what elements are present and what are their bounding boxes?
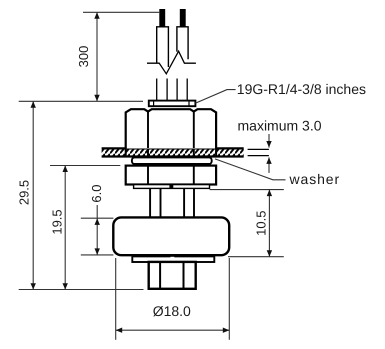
extension line float top left [81,217,114,219]
svg-text:maximum 3.0: maximum 3.0 [238,118,322,134]
washer [132,157,212,164]
extension line diameter right [228,258,230,340]
svg-text:Ø18.0: Ø18.0 [153,303,191,319]
svg-text:10.5: 10.5 [254,211,269,236]
lead wire 4 [186,79,188,101]
extension line plate top right [228,256,284,258]
stem tube right [184,188,194,217]
hex nut thread bushing through panel [126,149,216,157]
extension line step level right [210,189,284,191]
label maximum 3.0 [238,118,322,134]
extension line bottom (end nut bottom level) [19,289,144,291]
extension line at lower hex top level [50,165,120,167]
dimension maximum 3.0 arrows [266,134,271,173]
dimension 10.5 [254,190,272,257]
lead wire 2 [166,79,168,101]
end nut bottom [149,262,196,289]
label washer [289,171,341,187]
dimension 300 [76,12,100,101]
extension line at collar top level [19,100,143,102]
svg-text:19G-R1/4-3/8 inches: 19G-R1/4-3/8 inches [237,81,366,97]
top collar plate [149,101,196,107]
svg-text:29.5: 29.5 [16,180,31,205]
extension line diameter left [115,258,117,340]
svg-text:19.5: 19.5 [50,209,65,234]
svg-text:300: 300 [76,46,91,68]
dimension diameter 18.0 [116,303,230,333]
hex nut lower (below washer) [126,166,216,185]
hex nut upper (above panel) [126,109,216,148]
step flange below nut [134,184,210,188]
cable core left (black insulation) [159,9,165,27]
float body [113,217,229,255]
leader 19G thread label [195,90,235,104]
cable sheath left [157,27,169,67]
extension line float bottom left [81,254,114,256]
dimension 6.0 [89,185,104,255]
leader washer [215,159,286,180]
panel continuation lines right [248,149,269,155]
bottom retaining plate [132,256,214,262]
mounting panel (hatched cross-section) [102,148,244,156]
label 19G-R1/4-3/8 inches [237,81,366,97]
lead wire 3 [176,79,178,101]
cable core right (black insulation) [180,9,186,27]
stem tube left [150,188,160,217]
cable sheath right [177,27,188,59]
dimension 19.5 [50,166,68,290]
lead wire 1 [156,79,158,101]
extension line top (wire top level) [83,11,159,13]
svg-text:6.0: 6.0 [89,185,104,203]
dimension 29.5 [16,101,35,289]
svg-text:washer: washer [289,171,341,187]
cable break zigzag [147,51,196,74]
